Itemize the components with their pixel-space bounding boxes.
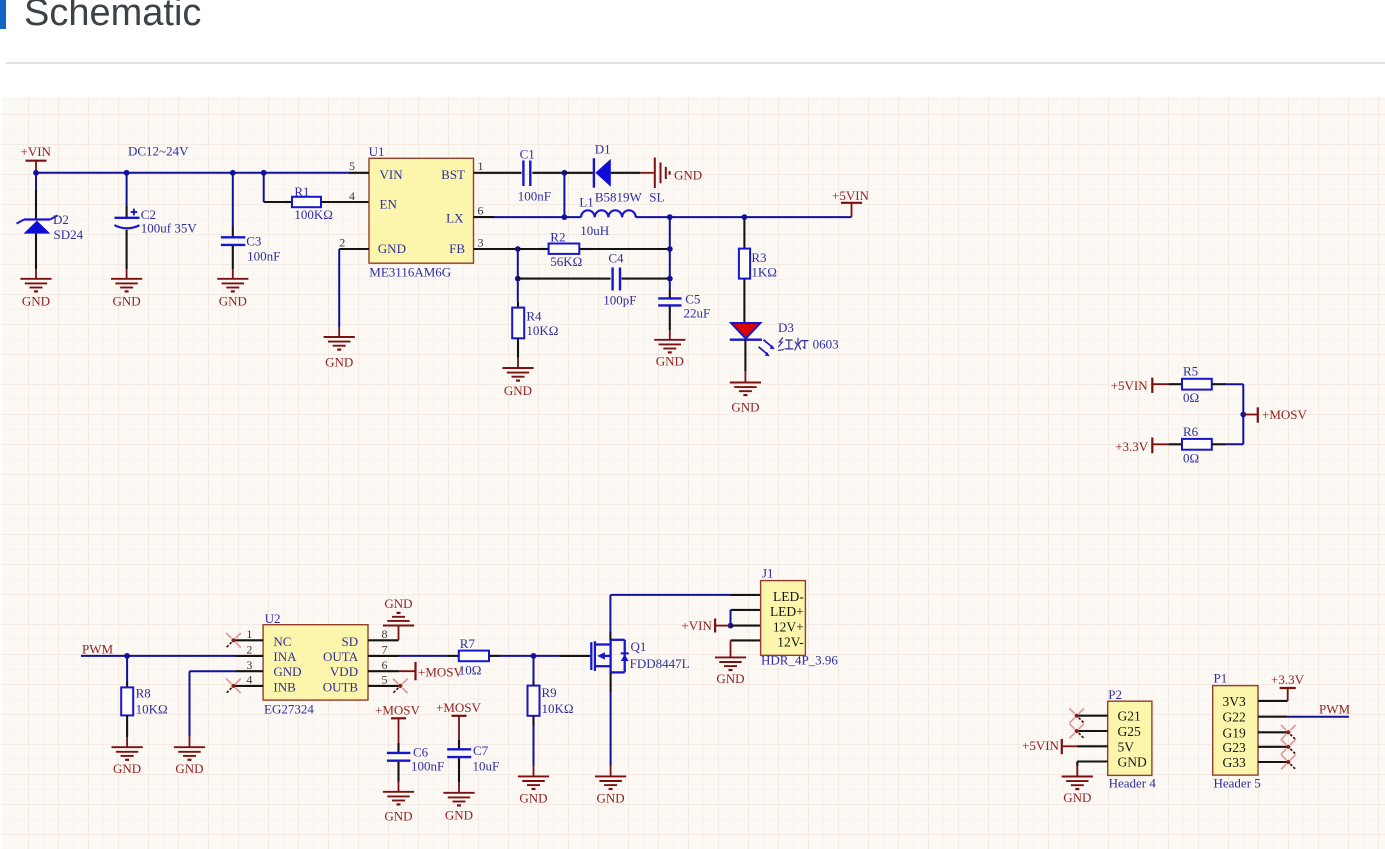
svg-text:0603: 0603 — [813, 336, 839, 351]
svg-text:100KΩ: 100KΩ — [294, 207, 333, 222]
svg-text:GND: GND — [113, 293, 141, 308]
wire to R4 — [517, 279, 519, 302]
node 12V+ junction — [728, 623, 734, 629]
svg-text:R3: R3 — [751, 250, 766, 265]
pin U2-7 — [368, 655, 399, 657]
transistor Q1 — [591, 640, 628, 673]
svg-text:+VIN: +VIN — [21, 144, 52, 159]
svg-text:PWM: PWM — [82, 641, 114, 656]
no-connect X pin5 — [393, 679, 408, 694]
svg-text:56KΩ: 56KΩ — [550, 254, 582, 269]
svg-text:Header 5: Header 5 — [1214, 775, 1261, 790]
wire OUTA — [399, 655, 449, 657]
capacitor C7 — [447, 749, 471, 757]
wire P2 gnd — [1076, 762, 1078, 767]
svg-text:2: 2 — [339, 235, 345, 249]
pin D2 cathode — [35, 190, 37, 219]
svg-text:1: 1 — [246, 627, 252, 641]
svg-text:12V+: 12V+ — [773, 620, 804, 635]
wire C4 left — [518, 278, 601, 280]
ground P2 — [1062, 766, 1093, 805]
power port +MOSV (VDD) — [399, 662, 464, 680]
op-amp U2 body — [263, 625, 368, 700]
pin R1 right / U1 pin4 — [321, 201, 369, 203]
power port +MOSV (C7) — [436, 700, 482, 740]
svg-text:NC: NC — [273, 634, 291, 649]
ground C6 — [383, 782, 414, 824]
svg-text:GND: GND — [1063, 790, 1091, 805]
no-connect X P2-1 — [1069, 708, 1084, 723]
svg-text:6: 6 — [478, 203, 484, 217]
svg-text:U2: U2 — [265, 611, 281, 626]
wire PWM — [81, 655, 235, 657]
pin R6 right — [1212, 443, 1226, 445]
svg-text:HDR_4P_3.96: HDR_4P_3.96 — [761, 652, 838, 667]
svg-text:C4: C4 — [608, 251, 624, 266]
svg-text:10KΩ: 10KΩ — [542, 701, 574, 716]
wire R9 to gnd — [533, 726, 535, 766]
svg-text:R5: R5 — [1183, 364, 1198, 379]
svg-text:5: 5 — [349, 159, 355, 173]
svg-text:100uf 35V: 100uf 35V — [141, 221, 198, 236]
pin Q1 drain — [609, 632, 611, 640]
pin U1-3 — [474, 248, 495, 250]
pin C1 left — [494, 172, 522, 174]
svg-text:P1: P1 — [1214, 671, 1228, 686]
svg-text:1: 1 — [478, 159, 484, 173]
resistor R3 — [739, 249, 750, 279]
node VIN junctions — [33, 170, 267, 176]
pin P2-2 — [1077, 730, 1108, 732]
wire drain up — [609, 595, 611, 633]
pin U2-4 — [235, 685, 263, 687]
svg-text:GND: GND — [1118, 755, 1147, 770]
pin U2-5 — [368, 685, 399, 687]
resistor R4 — [512, 308, 524, 339]
node C4 left junction — [515, 276, 521, 282]
pin U2-6 — [368, 670, 399, 672]
capacitor C3 — [221, 237, 245, 245]
svg-text:GND: GND — [504, 383, 532, 398]
svg-text:VDD: VDD — [330, 664, 358, 679]
svg-text:GND: GND — [175, 761, 203, 776]
svg-text:5V: 5V — [1118, 739, 1135, 754]
svg-text:C3: C3 — [246, 233, 261, 248]
pin J1-3 12V+ — [731, 625, 761, 627]
pin Q1 gate — [560, 655, 590, 657]
svg-text:12V-: 12V- — [777, 635, 804, 650]
wire G22 PWM — [1288, 716, 1349, 718]
svg-text:+3.3V: +3.3V — [1271, 672, 1305, 687]
svg-text:INB: INB — [273, 679, 296, 694]
pin C1 right — [532, 172, 564, 174]
pin U1-2 — [339, 248, 369, 250]
pin P1-4 — [1258, 746, 1288, 748]
pin D1 right — [611, 172, 641, 174]
svg-text:FB: FB — [449, 241, 465, 256]
svg-text:Header 4: Header 4 — [1109, 776, 1157, 791]
label D3 red-lamp — [778, 338, 808, 351]
svg-text:LX: LX — [446, 210, 464, 225]
pin R6 left — [1168, 443, 1182, 445]
svg-text:100nF: 100nF — [518, 188, 551, 203]
wire U2 gnd — [190, 671, 236, 736]
svg-text:SD24: SD24 — [54, 227, 84, 242]
svg-text:GND: GND — [716, 671, 744, 686]
pin D2 anode — [35, 234, 37, 269]
pin R4 top — [517, 302, 519, 308]
wire R6 to corner — [1226, 443, 1243, 445]
ground R8 — [112, 737, 143, 776]
pin R3 top — [743, 220, 745, 249]
pin C7 bottom — [458, 758, 460, 782]
connector P1 body — [1213, 686, 1258, 776]
ground C7 — [443, 782, 474, 823]
svg-text:B5819W: B5819W — [595, 190, 643, 205]
ground C5 — [654, 330, 685, 368]
svg-text:R1: R1 — [294, 184, 309, 199]
svg-text:+3.3V: +3.3V — [1115, 439, 1149, 454]
ground D3 — [730, 371, 761, 415]
svg-text:GND: GND — [384, 808, 412, 823]
node BST junction — [562, 170, 568, 176]
ground C3 — [217, 269, 248, 308]
pin U2-2 — [235, 655, 263, 657]
svg-text:G25: G25 — [1118, 724, 1141, 739]
pin U1-5 — [349, 172, 369, 174]
power port +5VIN — [832, 188, 870, 217]
svg-text:100nF: 100nF — [411, 759, 444, 774]
no-connect X P1-3 — [1281, 725, 1296, 740]
svg-text:G21: G21 — [1118, 709, 1141, 724]
resistor R1 — [292, 197, 321, 207]
svg-text:P2: P2 — [1108, 687, 1122, 702]
power port +3.3V (R6) — [1115, 438, 1168, 454]
svg-text:LED+: LED+ — [770, 604, 804, 619]
svg-text:LED-: LED- — [773, 589, 804, 604]
pin U2-1 — [235, 639, 263, 641]
ground U2 pin3 — [174, 736, 205, 776]
svg-text:D1: D1 — [595, 142, 611, 157]
wire L1 to +5VIN — [636, 216, 852, 218]
node FB junction — [515, 246, 521, 252]
svg-text:EN: EN — [380, 196, 398, 211]
pin U1-6 — [474, 216, 495, 218]
ground C2 — [111, 269, 142, 308]
svg-text:GND: GND — [597, 791, 625, 806]
svg-text:PWM: PWM — [1319, 701, 1351, 716]
wire R2 to node — [592, 248, 670, 250]
inductor L1 — [581, 210, 636, 217]
wire VIN rail — [36, 172, 349, 174]
capacitor C4 — [613, 268, 620, 291]
svg-text:8: 8 — [382, 627, 388, 641]
wire BST-LX link — [563, 173, 565, 217]
pin C3 bottom — [232, 246, 234, 269]
pin P1-1 — [1258, 700, 1288, 702]
svg-text:4: 4 — [246, 673, 252, 687]
svg-text:SL: SL — [649, 190, 664, 205]
no-connect X P1-5 — [1281, 755, 1296, 770]
pin C7 top — [458, 740, 460, 748]
ground J1 — [715, 640, 746, 685]
svg-text:D3: D3 — [778, 320, 794, 335]
svg-text:0Ω: 0Ω — [1183, 450, 1199, 465]
pin C4 left — [601, 278, 611, 280]
pin R7 right — [489, 655, 500, 657]
power port +5VIN (P2) — [1022, 738, 1077, 754]
svg-text:+5VIN: +5VIN — [1111, 378, 1149, 393]
pin Q1 source — [610, 672, 612, 692]
svg-text:10Ω: 10Ω — [459, 663, 482, 678]
pin P2-3 — [1077, 745, 1108, 747]
svg-text:+MOSV: +MOSV — [1262, 407, 1308, 422]
svg-text:C7: C7 — [473, 743, 489, 758]
node PWM junction — [124, 653, 130, 659]
connector J1 body — [761, 581, 806, 656]
pin U1-1 — [474, 172, 495, 174]
wire C4 to node — [640, 278, 670, 280]
pin R2 right — [579, 248, 592, 250]
pin R3 bottom — [743, 279, 745, 324]
svg-text:100pF: 100pF — [603, 292, 636, 307]
svg-text:7: 7 — [382, 643, 388, 657]
wire C3 drop — [232, 173, 234, 227]
power port +5VIN (R5) — [1111, 378, 1169, 393]
pin J1-1 LED- — [731, 594, 761, 596]
ground U1 — [324, 327, 355, 370]
resistor R9 — [528, 686, 540, 716]
pin C5 bottom — [669, 307, 671, 331]
svg-text:U1: U1 — [369, 144, 385, 159]
ground U2 pin8 (inverted) — [383, 596, 414, 641]
capacitor C2 — [115, 209, 140, 229]
page title — [24, 0, 201, 32]
wire LED+ link — [730, 610, 732, 626]
wire out column — [669, 217, 671, 290]
svg-text:GND: GND — [445, 808, 473, 823]
wire U1 gnd drop — [338, 249, 340, 327]
svg-text:3: 3 — [246, 658, 252, 672]
svg-text:VIN: VIN — [380, 167, 404, 182]
led D3 — [730, 323, 775, 356]
svg-text:R7: R7 — [460, 636, 476, 651]
op-amp U1 body — [369, 158, 474, 263]
svg-text:+VIN: +VIN — [681, 618, 712, 633]
pin U1 LX stub — [494, 216, 564, 218]
svg-text:GND: GND — [519, 791, 547, 806]
svg-text:+MOSV: +MOSV — [418, 664, 464, 679]
wire R9 drop — [533, 656, 535, 681]
svg-text:G23: G23 — [1223, 740, 1246, 755]
resistor R7 — [459, 651, 489, 662]
svg-text:R9: R9 — [542, 685, 557, 700]
svg-text:FDD8447L: FDD8447L — [630, 656, 690, 671]
pin C2 top — [126, 206, 128, 217]
no-connect X P1-4 — [1281, 740, 1296, 755]
svg-text:10KΩ: 10KΩ — [526, 323, 558, 338]
svg-text:C6: C6 — [413, 744, 429, 759]
pin C2 bottom — [126, 230, 128, 269]
pin R9 bottom — [532, 716, 534, 726]
svg-text:C1: C1 — [520, 147, 535, 162]
svg-text:GND: GND — [656, 353, 684, 368]
wire R7 to gate — [500, 655, 560, 657]
pin R5 left — [1168, 383, 1182, 385]
svg-text:GND: GND — [219, 293, 247, 308]
svg-text:+5VIN: +5VIN — [832, 188, 870, 203]
pin R5 right — [1212, 383, 1226, 385]
capacitor C6 — [387, 753, 411, 761]
node LX junction — [562, 214, 568, 220]
svg-text:BST: BST — [441, 167, 465, 182]
svg-text:GND: GND — [22, 293, 50, 308]
pin R1 left — [284, 201, 292, 203]
separator rule — [6, 62, 1385, 64]
pin C5 top — [669, 290, 671, 298]
svg-text:R8: R8 — [136, 685, 151, 700]
capacitor C1 — [523, 161, 530, 187]
svg-text:GND: GND — [384, 596, 412, 611]
pin R8 top — [126, 682, 128, 687]
svg-text:Q1: Q1 — [631, 639, 647, 654]
svg-text:ME3116AM6G: ME3116AM6G — [369, 265, 451, 280]
node R2 right junction — [667, 246, 673, 252]
wire C2 drop — [126, 173, 128, 206]
resistor R8 — [121, 687, 133, 715]
wire R8 drop — [126, 656, 128, 682]
pin J1-4 12V- — [731, 639, 761, 641]
wire R5 corner — [1226, 384, 1243, 444]
wire source down — [610, 692, 612, 766]
pin J1-2 LED+ — [731, 609, 761, 611]
svg-text:J1: J1 — [762, 566, 774, 581]
pin C6 top — [397, 743, 399, 752]
pin R9 top — [532, 681, 534, 686]
power port +MOSV (C6) — [375, 703, 421, 743]
svg-text:GND: GND — [378, 241, 406, 256]
pin R8 bottom — [126, 715, 128, 737]
capacitor C5 — [658, 298, 681, 305]
connector P2 body — [1108, 701, 1152, 775]
svg-text:G19: G19 — [1223, 725, 1246, 740]
no-connect X pin1 — [226, 633, 241, 648]
svg-text:10uH: 10uH — [580, 223, 609, 238]
svg-text:GND: GND — [731, 400, 759, 415]
pin D3 bottom — [744, 340, 746, 371]
svg-text:GND: GND — [273, 664, 301, 679]
wire drain to J1 — [610, 594, 730, 596]
no-connect X P2-2 — [1069, 724, 1084, 739]
svg-text:2: 2 — [246, 643, 252, 657]
svg-text:D2: D2 — [53, 212, 69, 227]
pin P1-2 — [1258, 716, 1288, 718]
pin P2-1 — [1077, 715, 1108, 717]
svg-text:R2: R2 — [550, 230, 565, 245]
svg-text:DC12~24V: DC12~24V — [128, 144, 189, 159]
power port +MOSV (right) — [1243, 407, 1307, 423]
pin U1 FB wire — [494, 248, 518, 250]
node gate junction — [531, 653, 537, 659]
svg-text:OUTA: OUTA — [323, 649, 359, 664]
svg-text:10uF: 10uF — [473, 758, 500, 773]
wire D2 drop — [35, 173, 37, 190]
ground Q1 — [595, 766, 626, 806]
svg-text:3: 3 — [478, 235, 484, 249]
power port +VIN — [21, 144, 52, 173]
pin C4 right — [622, 278, 641, 280]
svg-text:G33: G33 — [1223, 755, 1246, 770]
pin P1-3 — [1258, 731, 1288, 733]
power port +VIN (J1) — [681, 618, 730, 633]
pin R2 left — [540, 248, 549, 250]
ground R4 — [502, 358, 533, 398]
svg-text:OUTB: OUTB — [323, 679, 359, 694]
svg-text:EG27324: EG27324 — [264, 702, 314, 717]
svg-text:3V3: 3V3 — [1223, 694, 1246, 709]
ground D2 — [20, 269, 51, 308]
pin U2-8 — [368, 639, 399, 641]
svg-text:G22: G22 — [1223, 710, 1246, 725]
svg-text:0Ω: 0Ω — [1183, 390, 1199, 405]
resistor R2 — [549, 244, 580, 254]
svg-text:1KΩ: 1KΩ — [751, 264, 777, 279]
svg-text:10KΩ: 10KΩ — [136, 702, 168, 717]
svg-text:100nF: 100nF — [247, 249, 280, 264]
svg-text:SD: SD — [341, 634, 358, 649]
pin C3 top — [232, 227, 234, 237]
pin R7 left — [448, 655, 459, 657]
pin P2-4 — [1077, 760, 1108, 762]
svg-text:4: 4 — [349, 189, 355, 203]
pin R4 bottom — [517, 338, 519, 357]
ground R9 — [518, 766, 549, 806]
pin P1-5 — [1258, 761, 1288, 763]
svg-text:R4: R4 — [526, 309, 542, 324]
pin C6 bottom — [397, 762, 399, 782]
svg-text:INA: INA — [273, 649, 297, 664]
pin U2-3 — [235, 670, 263, 672]
svg-text:+5VIN: +5VIN — [1022, 738, 1060, 753]
diode D2 TVS — [17, 215, 58, 233]
svg-text:6: 6 — [382, 658, 388, 672]
power port +3.3V (P1) — [1271, 672, 1305, 701]
wire FB-R2 — [518, 248, 540, 250]
svg-text:GND: GND — [113, 761, 141, 776]
diode D1 — [594, 158, 611, 188]
resistor R5 — [1182, 379, 1212, 390]
page title bar — [0, 0, 6, 29]
node out junction1 — [667, 214, 673, 220]
node out junction2 — [742, 214, 748, 220]
svg-text:5: 5 — [382, 673, 388, 687]
svg-text:GND: GND — [674, 167, 702, 182]
resistor R6 — [1182, 439, 1212, 450]
node C4 right junction — [667, 276, 673, 282]
svg-text:22uF: 22uF — [684, 305, 711, 320]
wire LX to L1 — [564, 216, 581, 218]
ground GND sideways — [640, 158, 702, 189]
svg-text:+MOSV: +MOSV — [436, 700, 482, 715]
wire EN branch — [264, 173, 284, 202]
svg-text:GND: GND — [325, 355, 353, 370]
svg-text:+MOSV: +MOSV — [375, 703, 421, 718]
wire FB drop — [517, 249, 519, 279]
pin D1 anode-wire — [564, 172, 592, 174]
svg-text:L1: L1 — [579, 195, 593, 210]
node MOSV junction — [1240, 412, 1246, 418]
no-connect X pin4 — [226, 679, 241, 694]
